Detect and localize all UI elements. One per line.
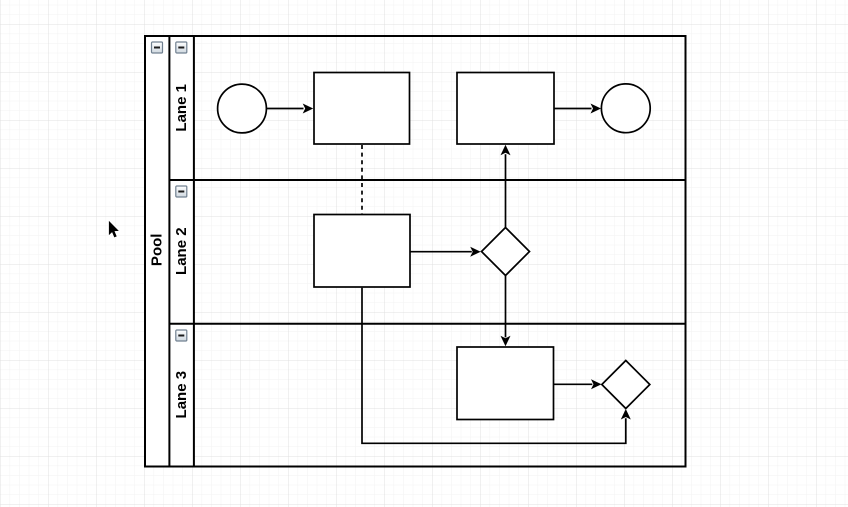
- svg-text:Lane 1: Lane 1: [173, 84, 190, 132]
- svg-text:Pool: Pool: [149, 234, 166, 266]
- svg-text:Lane 2: Lane 2: [173, 227, 190, 275]
- svg-text:Lane 3: Lane 3: [173, 371, 190, 419]
